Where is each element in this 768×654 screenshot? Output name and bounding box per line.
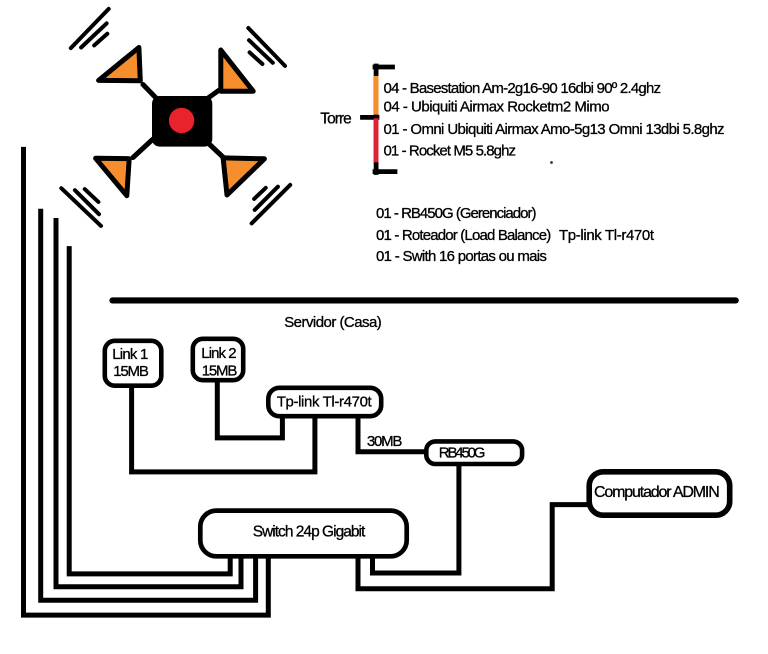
svg-text:01 - Omni Ubiquiti Airmax Amo-: 01 - Omni Ubiquiti Airmax Amo-5g13 Omni … [384,121,725,138]
svg-text:04 - Basestation Am-2g16-90 16: 04 - Basestation Am-2g16-90 16dbi 90º 2.… [384,80,661,97]
svg-text:Servidor (Casa): Servidor (Casa) [284,314,382,331]
svg-text:Tp-link Tl-r470t: Tp-link Tl-r470t [277,393,373,410]
svg-text:04 - Ubiquiti Airmax Rocketm2: 04 - Ubiquiti Airmax Rocketm2 Mimo [384,99,610,116]
svg-text:15MB: 15MB [113,363,149,380]
svg-text:01 - Rocket M5 5.8ghz: 01 - Rocket M5 5.8ghz [384,142,516,159]
svg-text:30MB: 30MB [367,433,402,450]
svg-text:Tp-link Tl-r470t: Tp-link Tl-r470t [559,227,655,244]
svg-text:Torre: Torre [320,111,351,128]
svg-text:01 - RB450G (Gerenciador): 01 - RB450G (Gerenciador) [376,205,536,222]
svg-text:01 - Swith 16 portas ou mais: 01 - Swith 16 portas ou mais [376,248,546,265]
svg-text:Link 1: Link 1 [112,346,148,363]
svg-text:15MB: 15MB [202,363,238,380]
svg-text:Computador ADMIN: Computador ADMIN [594,484,719,501]
svg-text:Link 2: Link 2 [201,345,236,362]
svg-text:RB450G: RB450G [439,444,485,461]
svg-text:Switch 24p Gigabit: Switch 24p Gigabit [253,524,366,541]
svg-text:01 - Roteador (Load Balance): 01 - Roteador (Load Balance) [376,227,551,244]
